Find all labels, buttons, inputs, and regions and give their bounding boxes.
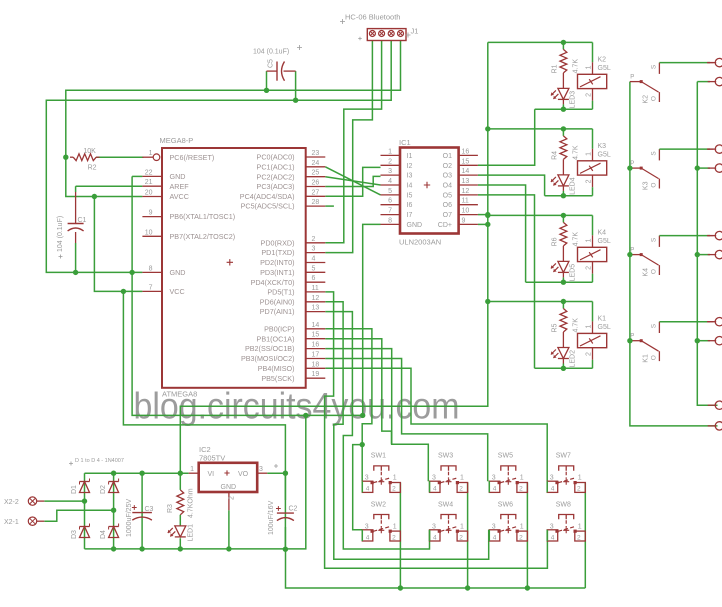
svg-text:4.7K: 4.7K (573, 232, 580, 247)
svg-text:1: 1 (585, 325, 592, 329)
svg-text:PB5(SCK): PB5(SCK) (261, 374, 294, 383)
svg-text:1: 1 (585, 152, 592, 156)
svg-text:12: 12 (312, 295, 320, 302)
svg-text:PC4(ADC4/SDA): PC4(ADC4/SDA) (240, 192, 295, 201)
svg-text:1000uF/25V: 1000uF/25V (126, 499, 133, 537)
svg-text:2: 2 (459, 534, 463, 541)
svg-text:S: S (651, 151, 658, 156)
svg-text:VI: VI (208, 471, 215, 478)
svg-text:28: 28 (312, 199, 320, 206)
svg-text:3: 3 (492, 475, 496, 482)
svg-text:22: 22 (145, 169, 153, 176)
svg-text:8: 8 (149, 265, 153, 272)
svg-text:AREF: AREF (170, 182, 190, 191)
svg-text:2: 2 (577, 534, 581, 541)
svg-text:PB4(MISO): PB4(MISO) (258, 364, 295, 373)
svg-text:O2: O2 (443, 163, 452, 170)
svg-text:VCC: VCC (170, 287, 185, 296)
svg-text:4: 4 (312, 256, 316, 263)
svg-text:6: 6 (312, 275, 316, 282)
svg-text:1: 1 (520, 475, 524, 482)
svg-text:100uF/16V: 100uF/16V (268, 500, 275, 535)
svg-text:C1: C1 (78, 217, 87, 224)
svg-text:GND: GND (170, 172, 186, 181)
svg-text:2: 2 (229, 496, 236, 500)
svg-text:2: 2 (312, 236, 316, 243)
svg-text:2: 2 (519, 486, 523, 493)
svg-text:O: O (651, 269, 658, 274)
svg-text:4.7K: 4.7K (573, 318, 580, 333)
svg-text:8: 8 (388, 217, 392, 224)
svg-text:LED5: LED5 (569, 264, 576, 282)
svg-text:3: 3 (432, 523, 436, 530)
svg-text:G5L: G5L (598, 324, 611, 331)
svg-text:1: 1 (149, 150, 153, 157)
svg-text:3: 3 (550, 475, 554, 482)
svg-text:2: 2 (392, 486, 396, 493)
svg-text:LED4: LED4 (569, 177, 576, 195)
svg-text:4: 4 (433, 534, 437, 541)
svg-text:10: 10 (462, 208, 470, 215)
svg-text:PD3(INT1): PD3(INT1) (260, 268, 294, 277)
svg-text:15: 15 (462, 158, 470, 165)
svg-text:HC-06 Bluetooth: HC-06 Bluetooth (345, 13, 400, 22)
svg-text:O5: O5 (443, 192, 452, 199)
svg-text:13: 13 (312, 305, 320, 312)
svg-text:PD0(RXD): PD0(RXD) (261, 238, 295, 247)
svg-text:4: 4 (366, 534, 370, 541)
svg-text:G5L: G5L (598, 238, 611, 245)
svg-text:2: 2 (519, 534, 523, 541)
svg-text:15: 15 (312, 332, 320, 339)
svg-text:O4: O4 (443, 183, 452, 190)
svg-text:21: 21 (145, 179, 153, 186)
svg-text:2: 2 (577, 486, 581, 493)
svg-text:CD+: CD+ (438, 222, 452, 229)
svg-text:GND: GND (407, 222, 423, 229)
svg-text:I4: I4 (407, 183, 413, 190)
svg-text:20: 20 (145, 190, 153, 197)
svg-text:4: 4 (493, 486, 497, 493)
svg-text:O6: O6 (443, 202, 452, 209)
svg-text:7: 7 (149, 284, 153, 291)
svg-text:4: 4 (433, 486, 437, 493)
svg-text:S: S (651, 64, 658, 69)
svg-text:2: 2 (388, 158, 392, 165)
svg-text:2: 2 (585, 93, 592, 97)
svg-text:LED2: LED2 (569, 350, 576, 368)
svg-text:1: 1 (578, 523, 582, 530)
svg-text:3: 3 (432, 475, 436, 482)
svg-text:IC1: IC1 (399, 138, 411, 147)
svg-text:S: S (651, 323, 658, 328)
svg-text:18: 18 (312, 361, 320, 368)
svg-text:3: 3 (365, 475, 369, 482)
svg-text:VO: VO (238, 471, 249, 478)
svg-text:I3: I3 (407, 173, 413, 180)
svg-text:K3: K3 (598, 143, 607, 150)
svg-text:R1: R1 (552, 64, 559, 73)
svg-text:K4: K4 (643, 268, 650, 277)
svg-text:PB6(XTAL1/TOSC1): PB6(XTAL1/TOSC1) (170, 212, 236, 221)
svg-text:PD5(T1): PD5(T1) (267, 288, 294, 297)
svg-text:PC3(ADC3): PC3(ADC3) (257, 182, 295, 191)
svg-text:PC6(/RESET): PC6(/RESET) (170, 153, 215, 162)
svg-text:PD2(INT0): PD2(INT0) (260, 258, 294, 267)
svg-text:SW1: SW1 (371, 453, 386, 460)
svg-text:1: 1 (578, 475, 582, 482)
svg-text:C2: C2 (289, 506, 298, 513)
svg-text:S: S (651, 237, 658, 242)
svg-text:O3: O3 (443, 173, 452, 180)
svg-text:K3: K3 (643, 181, 650, 190)
svg-text:10: 10 (145, 229, 153, 236)
svg-text:4: 4 (493, 534, 497, 541)
svg-text:O: O (651, 183, 658, 188)
svg-text:23: 23 (312, 150, 320, 157)
svg-text:D2: D2 (100, 485, 107, 494)
svg-text:D4: D4 (100, 530, 107, 539)
svg-text:P: P (630, 74, 634, 80)
svg-text:I5: I5 (407, 192, 413, 199)
svg-text:17: 17 (312, 352, 320, 359)
svg-text:2: 2 (585, 179, 592, 183)
svg-text:K2: K2 (598, 56, 607, 63)
svg-text:I6: I6 (407, 202, 413, 209)
svg-text:9: 9 (149, 210, 153, 217)
svg-text:2: 2 (459, 486, 463, 493)
svg-text:2: 2 (585, 266, 592, 270)
svg-text:1: 1 (393, 475, 397, 482)
svg-text:O7: O7 (443, 212, 452, 219)
svg-text:13: 13 (462, 178, 470, 185)
svg-text:PB0(ICP): PB0(ICP) (264, 324, 294, 333)
svg-text:PB1(OC1A): PB1(OC1A) (257, 334, 295, 343)
svg-text:PB3(MOSI/OC2): PB3(MOSI/OC2) (241, 354, 295, 363)
svg-text:I2: I2 (407, 163, 413, 170)
svg-text:ATMEGA8: ATMEGA8 (162, 390, 197, 399)
svg-text:4: 4 (388, 178, 392, 185)
svg-text:19: 19 (312, 371, 320, 378)
svg-text:G5L: G5L (598, 151, 611, 158)
svg-text:SW8: SW8 (556, 501, 571, 508)
svg-text:4: 4 (551, 486, 555, 493)
svg-text:LED1: LED1 (188, 524, 195, 542)
svg-text:5: 5 (388, 188, 392, 195)
svg-text:G5L: G5L (598, 65, 611, 72)
svg-text:4: 4 (366, 486, 370, 493)
svg-text:104 (0.1uF): 104 (0.1uF) (57, 216, 64, 252)
svg-text:7805TV: 7805TV (199, 454, 225, 463)
svg-text:2: 2 (392, 534, 396, 541)
svg-text:C3: C3 (145, 506, 154, 513)
svg-text:AVCC: AVCC (170, 192, 189, 201)
svg-text:GND: GND (221, 484, 237, 491)
svg-text:MEGA8-P: MEGA8-P (160, 136, 194, 145)
svg-text:6: 6 (388, 198, 392, 205)
svg-text:3: 3 (312, 246, 316, 253)
svg-text:X2-1: X2-1 (4, 519, 19, 526)
svg-text:PD1(TXD): PD1(TXD) (261, 248, 294, 257)
svg-text:R3: R3 (167, 504, 174, 513)
svg-text:K4: K4 (598, 229, 607, 236)
svg-text:SW5: SW5 (498, 453, 513, 460)
svg-text:SW6: SW6 (498, 501, 513, 508)
svg-text:1: 1 (190, 466, 194, 473)
svg-text:R4: R4 (552, 151, 559, 160)
svg-text:16: 16 (312, 342, 320, 349)
svg-text:3: 3 (550, 523, 554, 530)
svg-text:I7: I7 (407, 212, 413, 219)
svg-text:11: 11 (462, 198, 469, 205)
svg-text:SW2: SW2 (371, 501, 386, 508)
svg-text:104 (0.1uF): 104 (0.1uF) (253, 49, 289, 56)
svg-text:D1: D1 (71, 485, 78, 494)
svg-text:X2-2: X2-2 (4, 499, 19, 506)
svg-text:PD4(XCK/T0): PD4(XCK/T0) (251, 278, 295, 287)
svg-text:PC2(ADC2): PC2(ADC2) (257, 172, 295, 181)
svg-text:26: 26 (312, 180, 320, 187)
svg-text:K2: K2 (643, 95, 650, 104)
svg-text:R5: R5 (552, 323, 559, 332)
svg-text:ULN2003AN: ULN2003AN (399, 238, 441, 247)
svg-text:K1: K1 (643, 354, 650, 363)
svg-text:I1: I1 (407, 153, 413, 160)
svg-text:4.7K: 4.7K (573, 59, 580, 74)
svg-text:1: 1 (585, 238, 592, 242)
svg-text:SW3: SW3 (438, 453, 453, 460)
svg-text:12: 12 (462, 188, 470, 195)
svg-text:1: 1 (393, 523, 397, 530)
svg-text:D 1 to D 4 - 1N4007: D 1 to D 4 - 1N4007 (75, 458, 124, 464)
svg-text:O1: O1 (443, 153, 452, 160)
svg-text:14: 14 (462, 168, 470, 175)
svg-text:PD7(AIN1): PD7(AIN1) (260, 307, 295, 316)
svg-text:5: 5 (312, 265, 316, 272)
svg-text:C5: C5 (268, 59, 275, 68)
svg-text:1: 1 (388, 148, 392, 155)
svg-text:11: 11 (312, 285, 319, 292)
svg-text:PC5(ADC5/SCL): PC5(ADC5/SCL) (241, 202, 295, 211)
svg-text:J1: J1 (411, 27, 419, 36)
svg-text:1: 1 (520, 523, 524, 530)
svg-text:3: 3 (388, 168, 392, 175)
svg-text:PC0(ADC0): PC0(ADC0) (257, 153, 295, 162)
svg-text:1: 1 (460, 523, 464, 530)
svg-text:7: 7 (388, 208, 392, 215)
svg-text:24: 24 (312, 160, 320, 167)
svg-text:3: 3 (259, 466, 263, 473)
svg-text:SW4: SW4 (438, 501, 453, 508)
svg-text:2: 2 (585, 352, 592, 356)
svg-text:LED3: LED3 (569, 91, 576, 109)
svg-text:GND: GND (170, 268, 186, 277)
svg-text:9: 9 (462, 217, 466, 224)
svg-text:R2: R2 (88, 165, 97, 172)
svg-text:PB2(SS/OC1B): PB2(SS/OC1B) (245, 344, 295, 353)
svg-text:4: 4 (551, 534, 555, 541)
svg-text:3: 3 (492, 523, 496, 530)
svg-text:PD6(AIN0): PD6(AIN0) (260, 297, 295, 306)
svg-text:O: O (651, 355, 658, 360)
svg-text:1: 1 (460, 475, 464, 482)
svg-text:D3: D3 (71, 530, 78, 539)
svg-text:PC1(ADC1): PC1(ADC1) (257, 162, 295, 171)
svg-text:10K: 10K (83, 148, 96, 155)
svg-text:PB7(XTAL2/TOSC2): PB7(XTAL2/TOSC2) (170, 232, 236, 241)
svg-text:K1: K1 (598, 316, 607, 323)
svg-text:4.7K: 4.7K (573, 145, 580, 160)
svg-text:25: 25 (312, 170, 320, 177)
svg-text:O: O (651, 96, 658, 101)
svg-text:1: 1 (585, 65, 592, 69)
svg-text:16: 16 (462, 148, 470, 155)
svg-text:14: 14 (312, 322, 320, 329)
svg-text:3: 3 (365, 523, 369, 530)
svg-text:4.7KOhm: 4.7KOhm (188, 488, 195, 518)
svg-text:27: 27 (312, 189, 320, 196)
svg-text:SW7: SW7 (556, 453, 571, 460)
svg-text:R6: R6 (552, 237, 559, 246)
